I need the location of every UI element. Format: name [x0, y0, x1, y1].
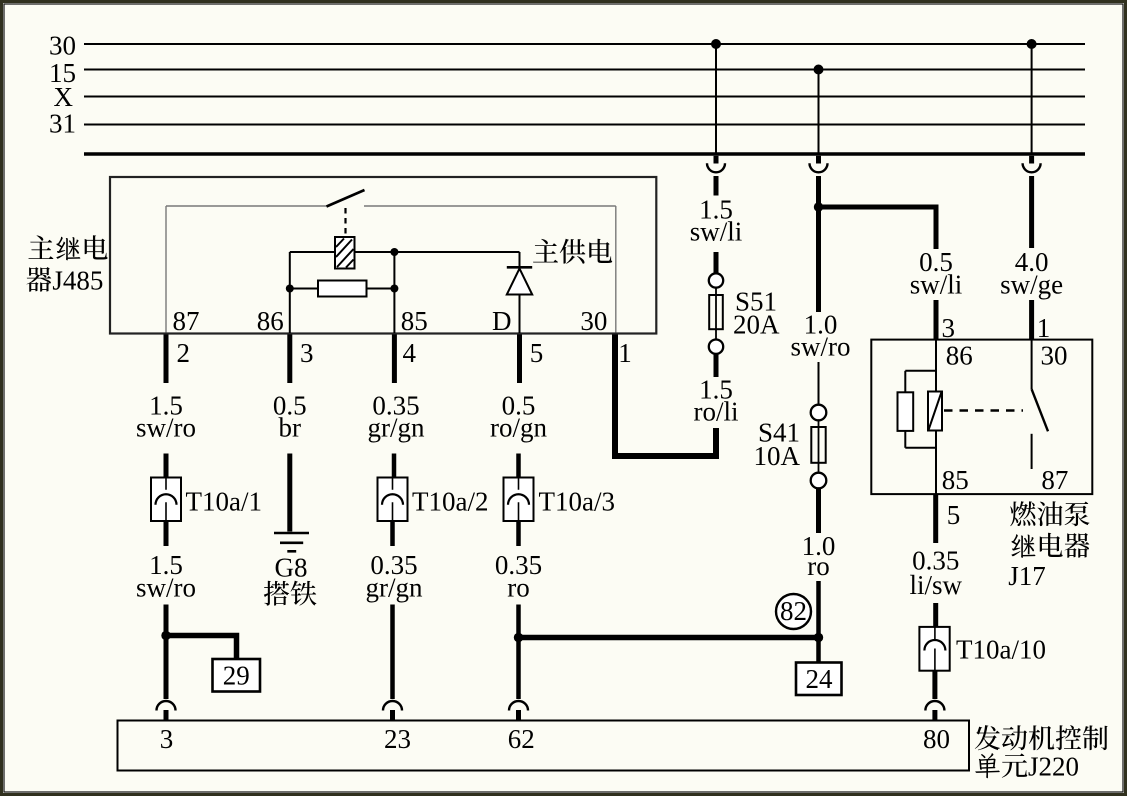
bus wire X	[84, 96, 1085, 98]
svg-text:ro/gn: ro/gn	[490, 413, 547, 443]
pin stubs 2 3 4 5 1	[164, 335, 169, 384]
svg-text:23: 23	[384, 724, 411, 754]
wire to junction	[816, 581, 821, 663]
branch to terminal box 29	[166, 636, 237, 661]
fuse S51 body	[715, 288, 717, 347]
relay J485 box	[110, 177, 656, 334]
svg-text:sw/ro: sw/ro	[136, 413, 196, 443]
svg-text:ro: ro	[507, 573, 530, 603]
svg-text:X: X	[54, 82, 74, 112]
wire 0.5 sw/li	[934, 300, 939, 340]
svg-text:T10a/2: T10a/2	[412, 487, 488, 517]
svg-text:ro: ro	[807, 551, 830, 581]
svg-text:2: 2	[177, 338, 191, 368]
diode D	[519, 252, 521, 267]
wire drop from bus 15	[818, 70, 820, 155]
label 发动机控制单元J220	[975, 725, 1000, 750]
svg-text:86: 86	[946, 341, 973, 371]
svg-text:29: 29	[223, 661, 250, 691]
svg-text:30: 30	[49, 31, 76, 61]
label 搭铁	[264, 581, 289, 606]
svg-text:30: 30	[1041, 341, 1068, 371]
svg-text:gr/gn: gr/gn	[368, 413, 425, 443]
J17 switch	[1031, 340, 1033, 390]
wire stub	[714, 156, 719, 164]
svg-text:1: 1	[1037, 313, 1051, 343]
connector T10a/2	[378, 478, 408, 522]
connector socket	[707, 163, 725, 172]
connector T10a/3	[504, 478, 534, 522]
J17 coil circuit	[935, 340, 937, 392]
connector socket	[810, 163, 828, 172]
label 主供电	[533, 239, 558, 263]
svg-text:ro/li: ro/li	[694, 397, 739, 427]
svg-text:J220: J220	[1028, 752, 1079, 782]
coil top wire	[290, 251, 335, 253]
ECU connector arcs	[157, 701, 176, 711]
wire 1.5 sw/ro to ECU pin3	[164, 605, 169, 700]
svg-text:sw/li: sw/li	[910, 270, 963, 300]
wire stub	[1029, 156, 1034, 164]
svg-text:sw/ro: sw/ro	[791, 332, 851, 362]
svg-text:5: 5	[947, 500, 961, 530]
wire to J17 30	[1029, 300, 1034, 340]
relay J17 box	[871, 340, 1092, 495]
svg-text:T10a/3: T10a/3	[539, 487, 615, 517]
wire 0.35 gr/gn to ECU pin23	[390, 605, 395, 700]
svg-text:br: br	[279, 413, 302, 443]
resistor leads	[290, 288, 318, 290]
svg-text:5: 5	[530, 338, 544, 368]
wire 1.0 ro	[816, 488, 821, 533]
svg-text:85: 85	[942, 465, 969, 495]
wire ro/li lower	[714, 428, 719, 453]
J17 resistor	[898, 392, 914, 431]
node 82 circle	[776, 594, 811, 629]
relay switch contact	[327, 190, 365, 207]
svg-text:D: D	[492, 306, 512, 336]
svg-text:T10a/10: T10a/10	[956, 635, 1046, 665]
svg-text:4: 4	[403, 338, 417, 368]
node on bus 30	[711, 39, 721, 49]
wire 1.5 sw/li upper	[714, 176, 719, 196]
ECU box J220	[118, 721, 970, 771]
fuse S41 body	[818, 420, 820, 480]
svg-text:86: 86	[257, 306, 284, 336]
terminal box 24	[796, 663, 842, 696]
J17 coil	[928, 392, 942, 431]
relay J485 inner housing	[166, 205, 327, 207]
svg-text:li/sw: li/sw	[909, 570, 962, 600]
svg-text:G8: G8	[275, 553, 308, 583]
svg-text:T10a/1: T10a/1	[186, 487, 262, 517]
svg-text:30: 30	[580, 306, 607, 336]
terminal 85 branch	[393, 252, 395, 333]
svg-text:62: 62	[508, 724, 535, 754]
junction to J17 branch	[814, 202, 823, 211]
wire segments to connectors	[164, 454, 169, 478]
wire stubs below T10a	[164, 521, 169, 546]
wire drop from bus 30	[1031, 44, 1033, 154]
svg-text:82: 82	[780, 596, 807, 626]
svg-text:sw/li: sw/li	[690, 216, 743, 246]
bus wire 30	[84, 43, 1085, 45]
wire 0.35 ro to ECU pin62	[516, 605, 521, 700]
connector socket	[1023, 163, 1041, 172]
bus wire 31	[84, 124, 1085, 126]
J17 actuator dashed	[944, 409, 1023, 412]
wire thin to fuse S41	[818, 362, 820, 405]
wire terminal30 to fuse S51 (thick route)	[615, 428, 716, 456]
wire stub	[816, 156, 821, 164]
wire to ECU pin80	[932, 671, 937, 699]
label 燃油泵继电器J17	[1010, 501, 1035, 526]
junction dot wire62	[514, 633, 523, 642]
wire to T10a/10	[933, 603, 938, 627]
svg-text:3: 3	[942, 313, 956, 343]
svg-text:85: 85	[401, 306, 428, 336]
svg-text:J485: J485	[52, 266, 103, 296]
svg-text:1: 1	[618, 338, 632, 368]
terminal 86 branch	[289, 252, 291, 333]
svg-text:87: 87	[1041, 465, 1068, 495]
bus wire bottom	[84, 152, 1085, 156]
wire to fuse	[714, 252, 719, 274]
fuse S41 terminal circle bottom	[811, 473, 827, 489]
pin 5 stub	[933, 495, 938, 543]
fuse S51 terminal circle bottom	[709, 340, 723, 354]
svg-text:3: 3	[300, 338, 314, 368]
resistor (parallel)	[318, 281, 367, 297]
wire drop from bus 30	[715, 44, 717, 154]
svg-text:31: 31	[49, 109, 76, 139]
fuse S51 terminal circle top	[709, 273, 723, 287]
junction dot	[814, 633, 823, 642]
svg-text:87: 87	[173, 306, 200, 336]
svg-text:20A: 20A	[733, 309, 780, 339]
svg-text:J17: J17	[1008, 561, 1046, 591]
svg-text:gr/gn: gr/gn	[366, 573, 423, 603]
relay coil (hatched)	[335, 237, 355, 269]
fuse S41 terminal circle top	[811, 405, 827, 421]
ground G8 symbol	[274, 532, 309, 535]
svg-text:24: 24	[806, 664, 834, 694]
node on bus 30 (right)	[1027, 39, 1037, 49]
svg-text:80: 80	[923, 724, 950, 754]
svg-text:sw/ro: sw/ro	[136, 573, 196, 603]
node on bus 15	[814, 65, 824, 75]
terminal box 29	[213, 659, 261, 692]
svg-text:10A: 10A	[754, 441, 801, 471]
connector T10a/10	[919, 627, 949, 671]
label 主继电器J485	[28, 235, 53, 259]
thick link wire (62 to 24/S41)	[519, 635, 819, 641]
wire 1.5 ro/li	[714, 354, 719, 377]
bus wire 15	[84, 69, 1085, 71]
actuator dashed link	[344, 208, 346, 237]
connector T10a/1	[151, 478, 181, 522]
wire 4.0 sw/ge	[1029, 176, 1034, 248]
junction dots	[286, 285, 294, 293]
svg-text:3: 3	[160, 724, 174, 754]
svg-text:sw/ge: sw/ge	[1000, 270, 1063, 300]
wire 1.0 sw/ro	[816, 176, 821, 312]
